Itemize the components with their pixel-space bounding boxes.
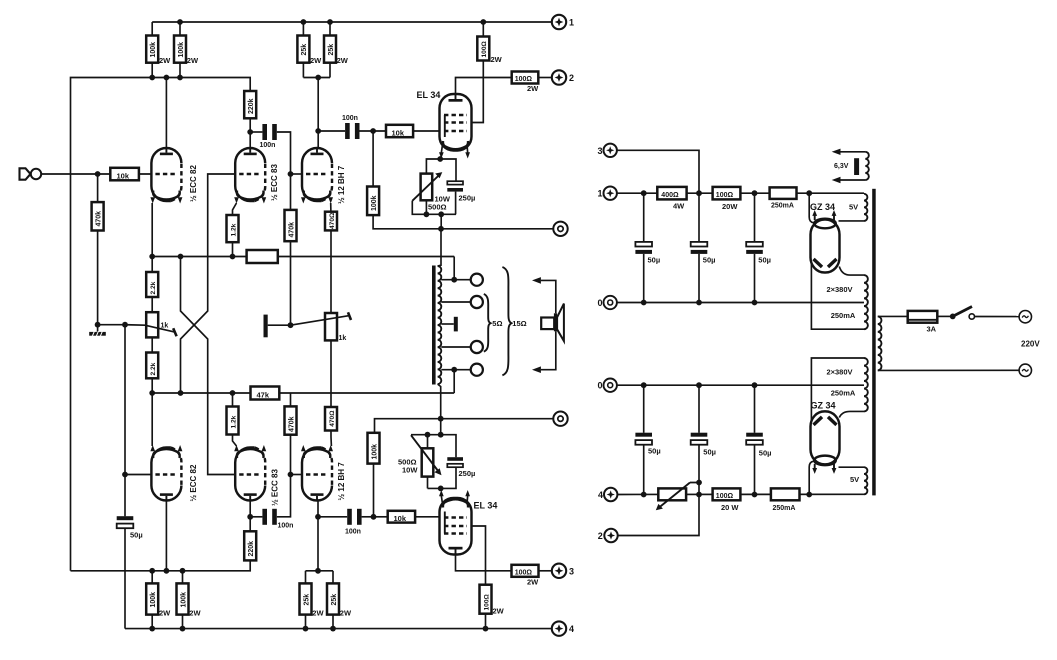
resistor 100ohm 20W (top) — [713, 187, 741, 211]
output tap 1 — [441, 274, 483, 286]
transformer output winding — [438, 266, 442, 384]
svg-text:0: 0 — [597, 298, 602, 308]
svg-text:250mA: 250mA — [771, 203, 794, 210]
terminal 3 (PSU) — [597, 144, 616, 157]
svg-text:2W: 2W — [527, 84, 539, 93]
brace 5 ohm — [484, 294, 491, 352]
svg-text:2W: 2W — [312, 609, 324, 618]
svg-text:470k: 470k — [288, 416, 295, 432]
terminal 0 (lower) — [553, 412, 567, 426]
svg-text:100n: 100n — [342, 115, 358, 122]
resistor 10k (EL34b grid stopper) — [374, 511, 440, 523]
svg-text:5Ω: 5Ω — [492, 319, 502, 328]
svg-text:250mA: 250mA — [831, 389, 856, 398]
svg-text:½ ECC 83: ½ ECC 83 — [270, 164, 279, 201]
svg-text:50µ: 50µ — [648, 256, 661, 265]
resistor 25k 2W (bottom pair b) — [327, 571, 352, 629]
svg-text:25k: 25k — [303, 594, 310, 606]
wire signal-ground rail top (rail0a) — [373, 215, 553, 229]
terminal 2 — [552, 70, 574, 84]
wire GZ34b left anode to HT winding top — [811, 358, 864, 421]
svg-text:50µ: 50µ — [648, 447, 661, 456]
svg-text:15Ω: 15Ω — [512, 319, 526, 328]
capacitor 50u (PSU top 1) — [635, 193, 660, 302]
wire ECC83b anode lead — [249, 501, 251, 517]
wire feedback tap drop (to tap 1) — [453, 257, 455, 280]
svg-text:2W: 2W — [493, 607, 505, 616]
tube 1/2 ECC82 (input, top) — [150, 148, 198, 204]
transformer output: primary lead bottom — [438, 384, 441, 419]
node EL34b grid RC junction — [371, 514, 377, 520]
fuse 3A — [908, 311, 938, 334]
svg-text:10k: 10k — [117, 172, 130, 181]
svg-text:3: 3 — [597, 146, 602, 156]
node 12BH7b anode junction — [315, 514, 321, 520]
svg-text:50µ: 50µ — [703, 256, 716, 265]
resistor 100k (EL34b grid leak) — [368, 433, 380, 517]
node ECC83b anode junction — [247, 514, 253, 520]
node EL34a grid RC junction — [370, 128, 376, 134]
svg-text:100k: 100k — [150, 42, 157, 58]
wire GZ34b right anode to HT winding bottom — [839, 411, 864, 417]
svg-text:250mA: 250mA — [831, 311, 856, 320]
capacitor 50u (PSU top 2) — [691, 193, 716, 302]
AC source terminal (line) — [1019, 311, 1031, 323]
svg-text:2W: 2W — [491, 55, 503, 64]
wire EL34b screen grid lead — [472, 526, 486, 629]
capacitor 50u (ECC82b grid decoupling) — [117, 475, 143, 629]
node 470k chain center junction — [288, 322, 294, 328]
AC source terminal (neutral) — [1019, 364, 1031, 376]
svg-text:25k: 25k — [301, 44, 308, 56]
svg-text:100k: 100k — [178, 42, 185, 58]
svg-text:100Ω: 100Ω — [716, 493, 734, 500]
wire 0 line top (HT centre tap) — [617, 302, 864, 304]
svg-text:6,3V: 6,3V — [834, 163, 849, 170]
svg-text:4W: 4W — [673, 201, 685, 210]
terminal 0 (upper) — [553, 222, 567, 236]
capacitor 50u (PSU top 3) — [746, 193, 771, 302]
svg-text:2×380V: 2×380V — [826, 368, 852, 377]
tube 1/2 ECC83 (bottom) — [234, 445, 279, 506]
resistor 100ohm 2W (terminal 3) — [512, 565, 552, 587]
wire to 12BH7b grid — [291, 474, 303, 476]
svg-text:2: 2 — [598, 531, 603, 541]
transformer output core — [432, 266, 436, 385]
wire ECC82b anode lead — [165, 501, 167, 571]
wire 5V winding (top) to filament — [839, 220, 865, 222]
svg-text:100k: 100k — [150, 592, 157, 608]
svg-text:½ 12 BH 7: ½ 12 BH 7 — [337, 462, 346, 501]
resistor 2.2k (upper divider) — [146, 257, 158, 313]
node ground junction — [95, 322, 101, 328]
resistor 47k (on lower middle line) — [251, 387, 280, 400]
wire ECC82a cathode lead — [151, 203, 153, 257]
svg-text:10k: 10k — [394, 514, 407, 523]
node 12BH7b grid junction — [288, 472, 294, 478]
rheostat 500ohm 10W with capacitor 250u (EL34b cathode bias) — [398, 419, 475, 492]
svg-text:2.2k: 2.2k — [150, 281, 157, 294]
svg-text:2W: 2W — [310, 56, 322, 65]
wire signal-ground rail bottom (rail0b) — [375, 419, 553, 433]
wire GZ34a left anode to HT winding bottom — [811, 263, 864, 329]
svg-text:1k: 1k — [339, 335, 347, 342]
wire lower middle line (47k line) — [152, 392, 454, 394]
node bias bar electrode — [264, 315, 291, 338]
resistor 470k (12BH7b grid leak) — [285, 393, 297, 475]
wire chain to bottom ECC82 cathode — [151, 393, 153, 446]
tube GZ34 (top rectifier) — [810, 202, 840, 273]
svg-text:100k: 100k — [371, 444, 378, 460]
resistor 100ohm 2W (terminal 2) — [512, 72, 552, 94]
terminal 4 — [552, 621, 574, 635]
svg-text:100n: 100n — [260, 142, 276, 149]
resistor 220k (ECC83b anode load) — [244, 517, 256, 561]
transformer 5V winding (bottom) — [850, 467, 867, 494]
wire 12BH7b anode lead — [317, 501, 319, 571]
node rail1 junctions — [177, 19, 486, 25]
svg-text:2W: 2W — [187, 56, 199, 65]
svg-text:220k: 220k — [248, 541, 255, 557]
resistor 25k 2W (top pair a) — [297, 22, 322, 78]
wire 12BH7a anode lead — [317, 78, 319, 149]
wire ECC82b grid lead — [125, 474, 152, 476]
svg-text:25k: 25k — [328, 44, 335, 56]
resistor 2.2k (lower divider) — [146, 353, 158, 394]
wire cross-coupling X (ECC83a grid path) — [181, 174, 236, 393]
terminal 2 (PSU) — [598, 529, 618, 542]
resistor 470k (input grid leak) — [92, 174, 104, 325]
svg-text:470Ω: 470Ω — [329, 212, 336, 229]
capacitor 100n (coupling a2) — [318, 115, 386, 139]
svg-text:1: 1 — [569, 18, 574, 28]
svg-text:250mA: 250mA — [773, 505, 796, 512]
svg-text:47k: 47k — [257, 391, 270, 400]
resistor 100k 2W (bottom pair a) — [146, 571, 171, 629]
svg-text:2W: 2W — [527, 578, 539, 587]
resistor 220k (ECC83a anode load) — [244, 91, 256, 132]
potentiometer 1k (right, balance) with wiper — [291, 312, 352, 342]
svg-text:½ ECC 82: ½ ECC 82 — [189, 464, 198, 501]
wire primary top to fuse — [878, 315, 908, 317]
terminal 1 — [552, 15, 574, 29]
terminal 3 — [552, 564, 574, 578]
wire terminal 3 feed — [617, 150, 699, 193]
svg-text:400Ω: 400Ω — [661, 192, 679, 199]
resistor 470k (12BH7a grid leak) — [285, 174, 297, 325]
svg-text:250µ: 250µ — [459, 194, 476, 203]
wire cross-coupling X (ECC83b grid path) — [181, 257, 236, 475]
wire EL34a anode to terminal 2 — [456, 78, 512, 95]
svg-text:GZ 34: GZ 34 — [810, 202, 835, 212]
resistor 25k 2W (top pair b) — [324, 22, 349, 78]
wire speaker to tap 4 (arrow) — [532, 331, 556, 373]
svg-text:½ 12 BH 7: ½ 12 BH 7 — [337, 165, 346, 204]
potentiometer 1k (left, hum balance) — [146, 312, 168, 352]
svg-text:100Ω: 100Ω — [716, 192, 734, 199]
transformer 5V winding (top) — [849, 194, 867, 221]
input jack symbol — [20, 168, 42, 179]
svg-text:2.2k: 2.2k — [150, 362, 157, 375]
resistor 100k 2W (bottom pair b) — [177, 571, 202, 629]
resistor 100k 2W (left pair b) — [174, 22, 199, 78]
wire primary bottom to AC — [878, 369, 1019, 371]
transformer HT winding bottom (2x380V 250mA) — [826, 358, 867, 411]
wire anode sub-rail bottom-left (rail3a) — [71, 560, 251, 570]
svg-text:220k: 220k — [248, 98, 255, 114]
svg-text:½ ECC 82: ½ ECC 82 — [189, 165, 198, 202]
wire anode sub-rail left (rail2a) + long feedback drop at far left — [71, 78, 251, 571]
terminal 4 (PSU) — [598, 488, 617, 501]
svg-text:50µ: 50µ — [759, 449, 772, 458]
transformer primary winding — [878, 316, 882, 370]
transformer main core — [872, 189, 876, 496]
svg-text:GZ 34: GZ 34 — [811, 401, 836, 411]
wire B+ rail top (terminal 1 rail) — [152, 21, 551, 23]
resistor 100ohm 2W (EL34a screen) — [477, 37, 502, 65]
terminal 0 (PSU top) — [597, 296, 616, 309]
terminal 0 (PSU bottom) — [597, 379, 616, 392]
svg-text:100n: 100n — [345, 529, 361, 536]
resistor 10k (input series) — [110, 168, 139, 181]
svg-text:2W: 2W — [337, 56, 349, 65]
svg-text:2W: 2W — [159, 56, 171, 65]
svg-text:1.2k: 1.2k — [230, 223, 237, 236]
svg-text:2: 2 — [569, 73, 574, 83]
wire hum-balance wiper (left pot) — [98, 322, 177, 336]
wire EL34a screen grid lead — [472, 22, 484, 123]
tube GZ34 (bottom rectifier) — [811, 401, 840, 474]
wire speaker to tap 1 (arrow) — [532, 277, 556, 313]
wire GZ34a cathode feed — [809, 193, 813, 223]
wire anode sub-rail right (rail2b 25k pair) — [303, 77, 330, 79]
svg-text:2W: 2W — [159, 609, 171, 618]
svg-text:5V: 5V — [849, 203, 858, 212]
fuse 250mA (bottom) — [771, 488, 800, 512]
terminal 1 (PSU) — [597, 187, 616, 200]
svg-text:100Ω: 100Ω — [481, 40, 488, 57]
svg-text:4: 4 — [598, 490, 603, 500]
wire GZ34b cathode feed — [809, 461, 813, 494]
speaker — [541, 304, 564, 341]
wire to 12BH7a grid — [291, 173, 303, 175]
svg-text:50µ: 50µ — [130, 531, 143, 540]
svg-text:220V: 220V — [1021, 340, 1040, 349]
brace 15 ohm — [502, 267, 511, 375]
svg-text:10W: 10W — [402, 466, 418, 475]
wire B+ line bottom (terminal 4 to rectifier) — [617, 493, 864, 495]
svg-text:0: 0 — [597, 381, 602, 391]
wire EL34b anode to terminal 3 — [456, 555, 512, 571]
output chassis tap — [441, 317, 458, 332]
svg-text:4: 4 — [569, 624, 574, 634]
wire 0 line bottom (HT centre tap) — [617, 384, 864, 386]
svg-text:470k: 470k — [95, 211, 102, 227]
wire ECC82a anode lead — [165, 78, 167, 149]
transformer output: primary lead top — [438, 229, 441, 266]
tube EL34 (top) — [417, 90, 472, 159]
svg-text:1: 1 — [597, 189, 602, 199]
svg-text:100n: 100n — [278, 523, 294, 530]
svg-text:250µ: 250µ — [459, 469, 476, 478]
wire input line — [41, 173, 152, 175]
svg-text:50µ: 50µ — [703, 448, 716, 457]
switch (mains) — [937, 307, 1019, 320]
svg-text:1.2k: 1.2k — [230, 415, 237, 428]
svg-text:20 W: 20 W — [721, 503, 739, 512]
wire B+ line top (terminal 1 to rectifier) — [617, 192, 864, 194]
svg-text:100k: 100k — [371, 195, 378, 211]
svg-text:3: 3 — [569, 566, 574, 576]
output tap 2 — [441, 296, 483, 308]
resistor 10k (EL34a grid stopper) — [386, 125, 440, 138]
svg-text:EL 34: EL 34 — [417, 90, 441, 100]
svg-text:5V: 5V — [850, 475, 859, 484]
resistor 100ohm 20W (bottom) — [713, 488, 741, 512]
wire grid line to bottom ECC82 — [124, 325, 126, 475]
resistor 400ohm 4W — [657, 187, 686, 210]
svg-text:470k: 470k — [288, 222, 295, 238]
resistor 470ohm (12BH7a cathode) — [325, 203, 337, 313]
svg-text:100Ω: 100Ω — [515, 76, 533, 83]
output tap 4 — [441, 364, 483, 376]
svg-text:2W: 2W — [340, 609, 352, 618]
svg-text:100Ω: 100Ω — [483, 593, 490, 610]
resistor 25k 2W (bottom pair a) — [300, 571, 325, 629]
resistor 470ohm (12BH7b cathode) — [325, 340, 337, 446]
svg-text:50µ: 50µ — [758, 256, 771, 265]
tube 1/2 12BH7 (bottom) — [301, 445, 346, 501]
svg-text:3A: 3A — [927, 325, 937, 334]
wire B+ rail bottom (terminal 4 rail) — [125, 628, 551, 630]
resistor 100k (EL34a grid leak) — [367, 131, 379, 215]
svg-text:25k: 25k — [331, 594, 338, 606]
capacitor 100n (coupling b2) — [318, 509, 374, 536]
resistor 100k 2W (left pair a) — [146, 22, 171, 78]
svg-text:470Ω: 470Ω — [329, 410, 336, 427]
resistor 1.2k (ECC83b cathode) — [227, 393, 239, 446]
svg-text:10k: 10k — [392, 129, 405, 138]
tube EL34 (bottom) — [439, 490, 497, 555]
capacitor 50u (PSU bottom 1) — [635, 385, 660, 494]
wire 5V winding (bottom) to filament — [839, 466, 865, 468]
transformer HT winding top (2x380V 250mA) — [826, 275, 867, 329]
svg-text:20W: 20W — [722, 202, 738, 211]
label 5 ohm / 15 ohm — [492, 319, 526, 328]
wire GZ34a right anode to HT winding top — [839, 267, 864, 276]
capacitor 50u (PSU bottom 2) — [691, 385, 716, 482]
wire feedback tap rise (to tap 4) — [453, 370, 455, 393]
capacitor 50u (PSU bottom 3) — [746, 385, 771, 494]
capacitor 100n (coupling b1) — [250, 475, 293, 530]
resistor 100ohm 2W (EL34b screen) — [480, 585, 505, 616]
node 12BH7a grid junction — [288, 171, 294, 177]
transformer 6.3V heater winding — [832, 149, 869, 184]
fuse 250mA (top) — [770, 187, 797, 209]
svg-text:EL 34: EL 34 — [474, 501, 498, 511]
svg-text:2×380V: 2×380V — [826, 285, 852, 294]
svg-text:100k: 100k — [180, 592, 187, 608]
resistor (unlabeled box on upper middle line) — [247, 250, 278, 263]
svg-text:2W: 2W — [189, 609, 201, 618]
rheostat 500ohm 10W with capacitor 250u (EL34a cathode bias) — [412, 156, 475, 229]
ground — [89, 325, 106, 337]
resistor 1.2k (ECC83a cathode) — [227, 203, 239, 257]
tube 1/2 ECC83 (top) — [234, 148, 279, 204]
svg-text:100Ω: 100Ω — [515, 569, 533, 576]
wire anode sub-rail bottom-right (rail3b) — [306, 570, 334, 572]
rheostat (bottom line adjustable resistor) — [618, 480, 702, 536]
output tap 3 — [441, 341, 483, 353]
wire ECC83a anode lead — [249, 132, 251, 148]
svg-text:500Ω: 500Ω — [428, 203, 447, 212]
capacitor 100n (coupling a1) — [250, 124, 290, 174]
svg-text:½ ECC 83: ½ ECC 83 — [271, 469, 280, 506]
tube 1/2 12BH7 (top) — [301, 148, 346, 204]
wire upper middle line (cathode/feedback line) — [152, 256, 454, 258]
tube 1/2 ECC82 (bottom) — [150, 445, 198, 502]
